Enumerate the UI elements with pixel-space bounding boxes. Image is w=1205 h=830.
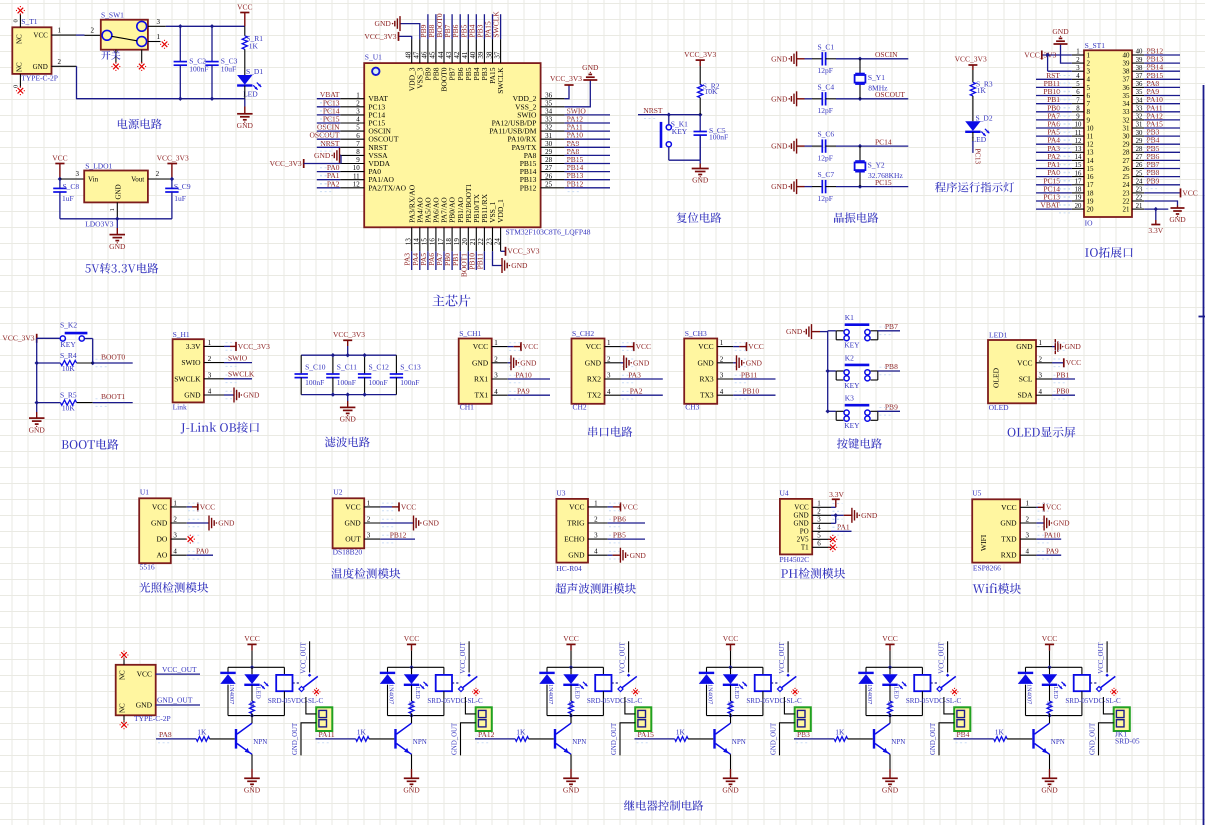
svg-text:VCC: VCC: [244, 634, 259, 643]
svg-text:GND_OUT: GND_OUT: [611, 722, 618, 755]
svg-text:2: 2: [156, 170, 160, 178]
svg-text:GND: GND: [568, 551, 585, 560]
svg-text:1: 1: [356, 91, 360, 99]
svg-text:45: 45: [429, 51, 437, 59]
svg-text:U2: U2: [333, 488, 342, 497]
svg-text:SWCLK: SWCLK: [174, 374, 201, 383]
svg-text:23: 23: [1136, 187, 1143, 194]
svg-text:S_Y1: S_Y1: [868, 73, 885, 82]
svg-text:LDO3V3: LDO3V3: [85, 219, 114, 228]
svg-text:GND: GND: [1000, 519, 1017, 528]
svg-text:9: 9: [1076, 114, 1080, 121]
svg-text:VCC: VCC: [569, 502, 584, 511]
svg-text:K1: K1: [845, 313, 854, 322]
svg-text:34: 34: [1123, 100, 1131, 108]
svg-text:SWCLK: SWCLK: [492, 11, 501, 38]
svg-text:VCC_3V3: VCC_3V3: [364, 32, 396, 41]
svg-text:3: 3: [1039, 372, 1043, 380]
svg-text:OLED: OLED: [992, 367, 1001, 388]
svg-text:U3: U3: [556, 488, 565, 497]
svg-text:30: 30: [1123, 133, 1131, 141]
svg-text:1K: 1K: [835, 728, 845, 737]
svg-text:46: 46: [421, 51, 429, 59]
svg-text:25: 25: [1123, 173, 1131, 181]
svg-text:GND_OUT: GND_OUT: [292, 722, 299, 755]
svg-text:LED: LED: [243, 89, 258, 98]
svg-text:S_C10: S_C10: [305, 363, 326, 372]
svg-text:24: 24: [1136, 179, 1143, 186]
svg-text:GND: GND: [244, 786, 261, 795]
svg-text:2: 2: [1039, 355, 1043, 363]
svg-text:32: 32: [545, 124, 553, 132]
svg-text:VCC_3V3: VCC_3V3: [2, 334, 34, 343]
svg-text:29: 29: [1123, 141, 1131, 149]
svg-text:GND: GND: [771, 182, 788, 191]
svg-text:GND: GND: [1052, 27, 1069, 36]
svg-text:LED: LED: [1052, 687, 1059, 700]
svg-text:S_U1: S_U1: [365, 53, 382, 62]
svg-text:GND: GND: [882, 786, 899, 795]
svg-text:VCC: VCC: [200, 502, 215, 511]
svg-text:13: 13: [1075, 146, 1082, 153]
svg-text:8: 8: [356, 148, 360, 156]
svg-text:1: 1: [607, 339, 611, 347]
svg-text:34: 34: [545, 108, 553, 116]
svg-text:3.3V: 3.3V: [186, 342, 201, 351]
svg-text:VCC_3V3: VCC_3V3: [507, 247, 539, 256]
svg-text:11: 11: [1075, 130, 1082, 137]
svg-text:3: 3: [1025, 532, 1029, 540]
svg-text:3: 3: [720, 372, 724, 380]
svg-text:VCC: VCC: [636, 342, 651, 351]
svg-text:21: 21: [469, 238, 477, 246]
svg-text:LED: LED: [414, 687, 421, 700]
svg-text:1: 1: [1025, 500, 1029, 508]
svg-text:VCC_3V3: VCC_3V3: [550, 74, 582, 83]
svg-text:PA9: PA9: [1046, 547, 1059, 556]
svg-text:10K: 10K: [62, 404, 76, 413]
svg-text:PH4502C: PH4502C: [780, 555, 810, 564]
svg-text:3: 3: [356, 108, 360, 116]
svg-text:43: 43: [445, 51, 453, 59]
svg-text:S_D2: S_D2: [976, 114, 993, 123]
svg-text:VCC_3V3: VCC_3V3: [238, 342, 270, 351]
svg-text:GND: GND: [218, 519, 235, 528]
svg-text:OLED: OLED: [989, 403, 1010, 412]
svg-text:26: 26: [1123, 165, 1131, 173]
svg-text:GND: GND: [151, 519, 168, 528]
svg-text:TYPE-C-2P: TYPE-C-2P: [134, 714, 171, 723]
svg-text:1K: 1K: [407, 701, 414, 709]
svg-text:CH3: CH3: [685, 403, 699, 412]
svg-text:2: 2: [173, 516, 177, 524]
svg-text:7: 7: [1087, 100, 1091, 108]
svg-text:GND: GND: [423, 519, 440, 528]
svg-text:4: 4: [494, 388, 498, 396]
svg-text:OSCIN: OSCIN: [875, 50, 898, 59]
svg-text:1K: 1K: [249, 41, 259, 50]
svg-text:VCC_OUT: VCC_OUT: [460, 642, 467, 674]
svg-text:S_C9: S_C9: [174, 182, 191, 191]
svg-text:TX1: TX1: [474, 391, 488, 400]
svg-text:1N4007: 1N4007: [388, 684, 395, 704]
svg-text:TYPE-C-2P: TYPE-C-2P: [21, 74, 58, 83]
svg-text:BOOT1: BOOT1: [101, 392, 125, 401]
svg-text:SCL: SCL: [1019, 375, 1033, 384]
svg-text:7: 7: [356, 140, 360, 148]
svg-text:PA11: PA11: [319, 730, 335, 739]
svg-text:S_C4: S_C4: [818, 82, 835, 91]
svg-text:S_LDO1: S_LDO1: [85, 161, 112, 170]
svg-text:HC-R04: HC-R04: [556, 564, 582, 573]
svg-text:4: 4: [817, 524, 821, 532]
svg-text:15: 15: [421, 238, 429, 246]
svg-text:GND_OUT: GND_OUT: [930, 722, 937, 755]
svg-text:GND: GND: [582, 63, 599, 72]
svg-text:S_Y2: S_Y2: [868, 160, 885, 169]
svg-text:S_C7: S_C7: [818, 170, 835, 179]
svg-text:28: 28: [1136, 146, 1143, 153]
svg-text:KEY: KEY: [844, 381, 860, 390]
svg-text:3: 3: [173, 532, 177, 540]
svg-text:VCC_3V3: VCC_3V3: [333, 330, 365, 339]
svg-text:VCC: VCC: [1182, 188, 1197, 197]
svg-text:NC: NC: [119, 703, 127, 713]
svg-text:3: 3: [817, 516, 821, 524]
svg-text:32: 32: [1123, 116, 1131, 124]
svg-text:NPN: NPN: [572, 738, 586, 746]
svg-text:27: 27: [545, 164, 553, 172]
svg-text:27: 27: [1123, 157, 1131, 165]
svg-text:1K: 1K: [676, 728, 686, 737]
svg-text:Link: Link: [173, 403, 187, 412]
svg-text:27: 27: [1136, 154, 1143, 161]
svg-text:23: 23: [485, 238, 493, 246]
svg-text:PA3: PA3: [628, 370, 641, 379]
svg-text:PB7: PB7: [885, 322, 898, 331]
svg-text:S_SW1: S_SW1: [101, 10, 124, 19]
svg-text:NPN: NPN: [413, 738, 427, 746]
svg-text:6: 6: [1087, 92, 1091, 100]
svg-text:36: 36: [1123, 84, 1131, 92]
svg-text:K3: K3: [845, 394, 854, 403]
svg-text:VCC: VCC: [33, 31, 48, 39]
svg-text:KEY: KEY: [60, 340, 76, 349]
svg-text:NC: NC: [16, 62, 24, 72]
svg-text:GND: GND: [1041, 786, 1058, 795]
svg-text:RX2: RX2: [587, 375, 601, 384]
svg-text:10: 10: [1087, 124, 1095, 132]
svg-text:U1: U1: [140, 488, 149, 497]
svg-text:SRD-05VDC-SL-C: SRD-05VDC-SL-C: [1065, 697, 1121, 705]
svg-text:SRD-05VDC-SL-C: SRD-05VDC-SL-C: [268, 697, 324, 705]
svg-text:100nF: 100nF: [305, 378, 324, 387]
svg-text:VCC: VCC: [1066, 358, 1081, 367]
svg-text:VDD_1: VDD_1: [496, 199, 505, 223]
svg-text:31: 31: [1136, 122, 1143, 129]
svg-text:GND: GND: [115, 184, 123, 199]
svg-text:STM32F103C8T6_LQFP48: STM32F103C8T6_LQFP48: [506, 227, 591, 236]
svg-text:VCC: VCC: [473, 342, 488, 351]
svg-text:GND: GND: [1169, 215, 1186, 224]
svg-text:VCC_OUT: VCC_OUT: [162, 665, 197, 674]
svg-text:39: 39: [477, 51, 485, 59]
svg-text:GND: GND: [340, 415, 357, 424]
svg-text:GND_OUT: GND_OUT: [771, 722, 778, 755]
svg-text:23: 23: [1123, 189, 1131, 197]
svg-text:17: 17: [1087, 181, 1095, 189]
svg-text:4: 4: [594, 548, 598, 556]
svg-text:31: 31: [1123, 124, 1131, 132]
svg-text:NPN: NPN: [253, 738, 267, 746]
svg-text:35: 35: [1123, 92, 1131, 100]
svg-text:12: 12: [1087, 141, 1095, 149]
svg-text:GND: GND: [771, 94, 788, 103]
svg-text:GND: GND: [237, 121, 254, 130]
svg-text:37: 37: [1123, 76, 1131, 84]
svg-text:VCC: VCC: [52, 153, 67, 162]
svg-text:PA2: PA2: [327, 179, 340, 188]
svg-text:26: 26: [545, 172, 553, 180]
svg-text:PB10: PB10: [743, 387, 760, 396]
svg-text:3: 3: [1076, 65, 1080, 72]
svg-text:VCC: VCC: [1001, 503, 1016, 512]
svg-text:20: 20: [1087, 206, 1095, 214]
svg-text:2: 2: [1076, 57, 1080, 64]
svg-text:VCC: VCC: [137, 670, 152, 679]
svg-text:S_H1: S_H1: [173, 330, 190, 339]
svg-text:GND: GND: [697, 358, 714, 367]
svg-text:GND: GND: [375, 19, 392, 28]
svg-text:22: 22: [477, 238, 485, 246]
svg-text:GND: GND: [403, 786, 420, 795]
svg-text:8MHz: 8MHz: [868, 84, 888, 93]
svg-text:KEY: KEY: [844, 341, 860, 350]
svg-text:GND: GND: [29, 425, 46, 434]
svg-text:26: 26: [1136, 162, 1143, 169]
svg-text:2V5: 2V5: [797, 536, 810, 544]
svg-text:2: 2: [494, 355, 498, 363]
svg-text:30: 30: [545, 140, 553, 148]
svg-text:NC: NC: [119, 670, 127, 680]
svg-text:VCC: VCC: [723, 634, 738, 643]
svg-text:12: 12: [1075, 138, 1082, 145]
svg-text:NPN: NPN: [1051, 738, 1065, 746]
svg-text:19: 19: [1087, 197, 1095, 205]
svg-text:10K: 10K: [705, 87, 719, 96]
svg-text:33: 33: [1123, 108, 1131, 116]
svg-text:5: 5: [817, 532, 821, 540]
svg-text:VBAT: VBAT: [1040, 201, 1060, 210]
svg-text:PA10: PA10: [1044, 531, 1061, 540]
svg-text:1uF: 1uF: [174, 194, 186, 203]
svg-text:PB6: PB6: [613, 514, 626, 523]
svg-text:12: 12: [353, 180, 361, 188]
svg-text:WIFI: WIFI: [979, 534, 988, 551]
svg-text:PA9: PA9: [517, 387, 530, 396]
svg-text:22: 22: [1123, 197, 1131, 205]
svg-text:1N4007: 1N4007: [866, 684, 873, 704]
svg-text:ESP8266: ESP8266: [973, 563, 1001, 572]
svg-text:3: 3: [157, 18, 161, 26]
svg-text:TX2: TX2: [587, 391, 601, 400]
svg-text:DO: DO: [156, 535, 167, 544]
svg-text:PB5: PB5: [613, 531, 626, 540]
svg-text:GND: GND: [692, 176, 709, 185]
svg-text:12pF: 12pF: [818, 106, 833, 115]
svg-text:CH1: CH1: [460, 403, 474, 412]
svg-text:SWCLK: SWCLK: [228, 370, 255, 379]
svg-text:15: 15: [1087, 165, 1095, 173]
svg-text:12pF: 12pF: [818, 153, 833, 162]
svg-text:10: 10: [1075, 122, 1082, 129]
svg-text:3.3V: 3.3V: [829, 490, 844, 499]
svg-text:GND: GND: [794, 512, 809, 520]
svg-text:14: 14: [1075, 154, 1082, 161]
svg-text:GND: GND: [630, 551, 647, 560]
svg-text:1: 1: [1076, 49, 1079, 56]
svg-text:SRD-05VDC-SL-C: SRD-05VDC-SL-C: [746, 697, 802, 705]
svg-text:SRD-05: SRD-05: [1115, 737, 1140, 746]
svg-text:GND: GND: [520, 358, 537, 367]
svg-text:3: 3: [494, 372, 498, 380]
svg-text:GND: GND: [472, 358, 489, 367]
svg-text:21: 21: [1136, 203, 1143, 210]
svg-text:32: 32: [1136, 114, 1143, 121]
svg-text:GND: GND: [33, 63, 48, 71]
svg-text:VCC: VCC: [748, 342, 763, 351]
svg-text:VCC: VCC: [1046, 503, 1061, 512]
svg-text:GND: GND: [184, 391, 201, 400]
svg-text:GND: GND: [633, 358, 650, 367]
svg-text:29: 29: [545, 148, 553, 156]
svg-text:2: 2: [58, 58, 62, 66]
svg-text:PB12: PB12: [390, 531, 407, 540]
svg-text:VCC: VCC: [237, 2, 252, 11]
svg-text:0: 0: [13, 85, 20, 88]
svg-text:2: 2: [594, 515, 598, 523]
svg-text:32.768KHz: 32.768KHz: [868, 171, 903, 180]
svg-text:4: 4: [720, 388, 724, 396]
svg-text:4: 4: [1087, 76, 1091, 84]
svg-text:S_C8: S_C8: [63, 182, 80, 191]
svg-text:SDA: SDA: [1017, 391, 1033, 400]
svg-text:NPN: NPN: [891, 738, 905, 746]
svg-text:1K: 1K: [248, 701, 255, 709]
svg-text:5: 5: [1076, 81, 1080, 88]
svg-text:VCC: VCC: [523, 342, 538, 351]
svg-text:16: 16: [1087, 173, 1095, 181]
svg-text:GND: GND: [1016, 342, 1033, 351]
svg-text:VCC: VCC: [1017, 358, 1032, 367]
svg-text:PB8: PB8: [885, 362, 898, 371]
svg-text:35: 35: [545, 99, 553, 107]
svg-text:1K: 1K: [886, 701, 893, 709]
svg-text:2: 2: [91, 27, 95, 35]
svg-text:24: 24: [493, 238, 501, 246]
svg-text:17: 17: [1075, 179, 1082, 186]
svg-text:1: 1: [367, 499, 371, 507]
svg-text:40: 40: [469, 51, 477, 59]
svg-text:2: 2: [208, 355, 212, 363]
svg-text:S_ST1: S_ST1: [1085, 41, 1106, 50]
svg-text:3: 3: [76, 170, 80, 178]
svg-text:VCC_3V3: VCC_3V3: [270, 159, 302, 168]
svg-text:Vout: Vout: [131, 176, 144, 184]
svg-text:1K: 1K: [995, 728, 1005, 737]
svg-text:OUT: OUT: [345, 535, 361, 544]
svg-text:S_C6: S_C6: [818, 130, 835, 139]
svg-text:GND: GND: [511, 261, 528, 270]
svg-text:10uF: 10uF: [221, 65, 236, 74]
svg-text:1: 1: [58, 27, 62, 35]
svg-text:GND: GND: [563, 786, 580, 795]
svg-text:GND: GND: [1065, 342, 1082, 351]
svg-text:3: 3: [607, 372, 611, 380]
svg-text:S_CH1: S_CH1: [459, 329, 481, 338]
svg-text:1N4007: 1N4007: [547, 684, 554, 704]
svg-text:GND: GND: [746, 358, 763, 367]
svg-text:SRD-05VDC-SL-C: SRD-05VDC-SL-C: [587, 697, 643, 705]
svg-text:100nF: 100nF: [369, 378, 388, 387]
svg-text:S_C11: S_C11: [337, 363, 357, 372]
svg-text:9: 9: [356, 156, 360, 164]
svg-text:2: 2: [817, 508, 821, 516]
svg-text:100nF: 100nF: [400, 378, 419, 387]
svg-text:S_D1: S_D1: [246, 67, 263, 76]
svg-text:28: 28: [545, 156, 553, 164]
svg-text:33: 33: [1136, 106, 1143, 113]
svg-text:PB11: PB11: [475, 253, 484, 270]
svg-text:10: 10: [353, 164, 361, 172]
svg-text:14: 14: [413, 238, 421, 246]
svg-text:1: 1: [1039, 339, 1043, 347]
svg-text:VCC_OUT: VCC_OUT: [1098, 642, 1105, 674]
svg-text:1N4007: 1N4007: [707, 684, 714, 704]
svg-text:1: 1: [494, 339, 498, 347]
svg-text:42: 42: [453, 51, 461, 59]
svg-text:LED: LED: [733, 687, 740, 700]
svg-text:6: 6: [356, 132, 360, 140]
svg-text:PA12: PA12: [478, 730, 495, 739]
svg-text:11: 11: [1087, 133, 1094, 141]
svg-text:VCC: VCC: [152, 502, 167, 511]
svg-text:2: 2: [1025, 515, 1029, 523]
svg-text:4: 4: [356, 116, 360, 124]
svg-text:22: 22: [1136, 195, 1143, 202]
svg-text:6: 6: [817, 540, 821, 548]
svg-text:19: 19: [453, 238, 461, 246]
svg-text:TRIG: TRIG: [567, 519, 585, 528]
svg-text:LED: LED: [574, 687, 581, 700]
svg-text:39: 39: [1123, 60, 1131, 68]
svg-text:16: 16: [429, 238, 437, 246]
svg-text:PA10: PA10: [515, 370, 532, 379]
svg-text:4: 4: [1076, 73, 1080, 80]
svg-text:VCC: VCC: [404, 634, 419, 643]
svg-text:33: 33: [545, 116, 553, 124]
svg-text:2: 2: [1087, 60, 1091, 68]
svg-text:SWCLK: SWCLK: [496, 67, 505, 94]
svg-text:RX3: RX3: [700, 375, 714, 384]
svg-text:15: 15: [1075, 162, 1082, 169]
svg-text:6: 6: [1076, 89, 1080, 96]
svg-text:PC14: PC14: [875, 137, 892, 146]
svg-text:4: 4: [208, 388, 212, 396]
svg-text:1K: 1K: [357, 728, 367, 737]
svg-text:PB12: PB12: [520, 183, 537, 192]
svg-text:38: 38: [1123, 68, 1131, 76]
